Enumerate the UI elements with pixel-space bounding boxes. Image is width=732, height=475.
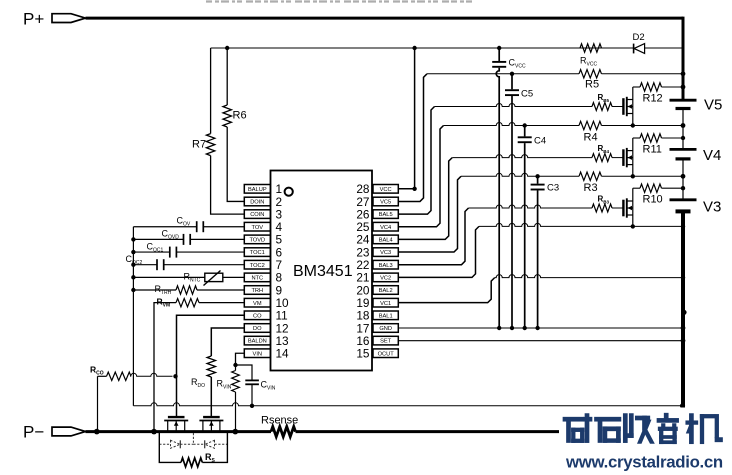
svg-text:BALUP: BALUP: [248, 187, 267, 193]
node junction C4 top: [523, 123, 527, 127]
label RB5: [598, 93, 610, 103]
resistor R12: [640, 83, 662, 91]
wire P+ top rail: [86, 17, 684, 20]
label Rco: [90, 365, 104, 377]
svg-text:www.crystalradio.cn: www.crystalradio.cn: [565, 453, 723, 472]
label R11: [643, 144, 662, 156]
battery V4: [670, 149, 697, 159]
node junction Rvin rail: [233, 429, 239, 435]
svg-text:BAL3: BAL3: [379, 263, 393, 269]
svg-text:27: 27: [356, 195, 369, 209]
wire TOV row: [133, 226, 244, 228]
pin 17 GND label box: [373, 324, 398, 333]
label Cvcc: [509, 58, 526, 70]
pin 24 number: [356, 233, 370, 247]
node junction Cvcc gnd: [497, 326, 501, 330]
capacitor Coc1: [170, 247, 177, 258]
wire R6 column top: [226, 48, 228, 105]
pin 14 VIN label box: [244, 349, 270, 358]
pin 23 VC3 label box: [373, 248, 398, 257]
svg-text:26: 26: [356, 207, 370, 221]
wire BAL4 pin up-over: [398, 158, 452, 240]
node junction R5 bus: [681, 71, 686, 76]
P+ connector terminal: [52, 14, 86, 23]
svg-text:VC2: VC2: [380, 275, 391, 281]
node junction VC2 Q3source: [631, 224, 635, 228]
node junction rowB bus: [680, 403, 685, 408]
svg-text:D2: D2: [633, 32, 645, 43]
pin 4 TOV label box: [244, 222, 270, 231]
pin 8 number: [276, 271, 283, 285]
label R5: [585, 79, 599, 91]
svg-text:VC1: VC1: [380, 301, 391, 307]
svg-text:DO: DO: [253, 326, 262, 332]
label R12: [643, 93, 663, 105]
wire Rco left leg: [97, 376, 99, 431]
wire R4 row left: [444, 123, 580, 126]
capacitor Covd: [184, 234, 191, 245]
pin 7 TOC2 label box: [244, 260, 270, 269]
wire bus V5 to V4: [682, 109, 684, 150]
resistor Rsense: [271, 427, 296, 437]
svg-text:TOV: TOV: [252, 225, 264, 231]
svg-text:18: 18: [356, 309, 370, 323]
pin 27 VC5 label box: [373, 197, 398, 206]
pin 8 NTC label box: [244, 273, 270, 282]
label Cvin: [261, 380, 276, 392]
battery V5: [670, 100, 697, 108]
svg-text:BAL2: BAL2: [379, 288, 393, 294]
pin 15 OCUT label box: [373, 349, 398, 358]
pin 28 number: [356, 182, 370, 196]
pin 27 number: [356, 195, 369, 209]
wire R12 to bus: [662, 86, 684, 88]
svg-text:VC3: VC3: [380, 250, 391, 256]
svg-text:P−: P−: [23, 423, 44, 442]
P- label: [23, 423, 44, 442]
svg-text:R10: R10: [643, 194, 663, 206]
node junction VC2 bus: [681, 224, 685, 228]
node junction Rco CO-column: [173, 374, 177, 378]
node junction bus TOVD: [131, 237, 135, 241]
pin 4 number: [276, 220, 283, 234]
label Coc1: [147, 242, 164, 254]
pin 16 number: [356, 334, 370, 348]
pin 9 number: [276, 283, 283, 297]
pin 20 number: [356, 283, 370, 297]
wire RB4 row: [452, 155, 592, 158]
pin 15 number: [356, 347, 370, 361]
pin 2 DOIN label box: [244, 197, 270, 206]
wire TOVD row: [133, 238, 244, 240]
wire VC1 row: [495, 275, 683, 278]
svg-text:14: 14: [276, 347, 290, 361]
svg-text:BALDN: BALDN: [248, 339, 267, 345]
node junction C3 gnd: [535, 326, 539, 330]
wire VC4 pin up-over: [398, 126, 443, 227]
watermark url: [565, 453, 723, 472]
node junction C3 top: [535, 174, 539, 178]
svg-text:20: 20: [356, 283, 370, 297]
node junction top row Cvcc: [497, 46, 501, 50]
wire RB5 row: [435, 104, 593, 107]
svg-text:17: 17: [356, 321, 369, 335]
svg-text:BM3451: BM3451: [293, 263, 353, 280]
node junction SET bus: [681, 338, 686, 343]
pin 12 number: [276, 321, 289, 335]
wire Rvin to rail: [235, 365, 237, 432]
label V3: [703, 199, 721, 216]
wire R6 column bottom: [227, 127, 244, 201]
wire TRH row: [133, 289, 244, 291]
resistor R5: [579, 70, 601, 78]
wire VC2 row: [479, 223, 683, 226]
label Cov: [177, 216, 191, 228]
transistor Q1 discharge MOSFET: [164, 417, 188, 432]
wire R11 left: [633, 137, 640, 139]
pin 5 TOVD label box: [244, 235, 270, 244]
svg-text:R3: R3: [584, 182, 598, 194]
label C3: [547, 183, 559, 194]
wire left bus vertical: [132, 227, 134, 406]
resistor RB5: [592, 103, 612, 111]
pin 23 number: [356, 245, 370, 259]
pin 25 VC4 label box: [373, 222, 398, 231]
wire R10 left: [633, 187, 640, 189]
P+ label: [23, 10, 44, 29]
pin 19 VC1 label box: [373, 298, 398, 307]
pin 1 index circle: [285, 188, 293, 196]
svg-text:VIN: VIN: [253, 351, 262, 357]
wire R5 to bus: [602, 73, 684, 75]
resistor R10: [640, 184, 662, 192]
wire sense row B: [133, 403, 683, 406]
pin 6 TOC1 label box: [244, 248, 270, 257]
capacitor C4: [518, 126, 532, 329]
wire D2 to bus: [645, 47, 683, 49]
wire bus V4 to V3: [682, 159, 684, 200]
wire RB3 to gate: [612, 207, 623, 209]
wire right bus thick top: [682, 17, 685, 101]
label R10: [643, 194, 663, 206]
pin 13 BALDN label box: [244, 336, 270, 345]
node junction rowB Cvin: [250, 404, 254, 408]
wire Q5 drain-source link: [632, 87, 634, 126]
wire R5 row left: [427, 73, 579, 75]
node junction bus mid: [681, 310, 686, 315]
wire VC5 pin up-over: [398, 74, 427, 202]
svg-text:R11: R11: [643, 144, 662, 156]
node junction bus TOC1: [131, 250, 135, 254]
wire P- rail left: [86, 430, 272, 433]
transistor Q2 charge MOSFET: [199, 417, 223, 432]
transistor Q5 balance MOSFET: [623, 97, 632, 116]
wire Cvin branch: [236, 365, 253, 380]
svg-text:BAL5: BAL5: [379, 212, 393, 218]
wire Rs loop: [159, 432, 227, 463]
pin 19 number: [356, 296, 369, 310]
svg-text:28: 28: [356, 182, 370, 196]
pin 26 number: [356, 207, 370, 221]
label Coc2: [126, 254, 143, 266]
node junction Rvm rail: [151, 429, 157, 435]
pin 22 number: [356, 258, 369, 272]
label Rntc: [184, 272, 201, 284]
wire dashed center stub: [192, 433, 194, 444]
wire BAL3 pin up-over: [398, 208, 468, 265]
node junction R4 Q5source: [631, 123, 635, 127]
svg-text:TOC1: TOC1: [250, 250, 265, 256]
label Rtrh: [155, 284, 172, 296]
label D2: [633, 32, 645, 43]
wire GND row: [398, 327, 683, 329]
capacitor Cvcc: [492, 48, 506, 328]
svg-text:VC5: VC5: [380, 200, 391, 206]
label Rvin: [217, 379, 232, 391]
node junction R12 bus: [681, 85, 686, 90]
wire TOC1 row: [133, 251, 244, 253]
label R7: [192, 139, 206, 151]
wire R7 column bottom: [211, 156, 245, 215]
node junction VIN split: [233, 363, 237, 367]
wire VCC pin to top row: [398, 48, 414, 189]
pin 21 VC2 label box: [373, 273, 398, 282]
node junction Rco rail: [94, 429, 100, 435]
svg-text:OCUT: OCUT: [378, 351, 395, 357]
pin 2 number: [276, 195, 283, 209]
label C5: [521, 89, 533, 100]
svg-text:C3: C3: [547, 183, 559, 194]
battery V3: [670, 200, 697, 212]
resistor Rvm: [176, 299, 199, 307]
label V5: [704, 97, 722, 114]
svg-text:R4: R4: [584, 132, 598, 144]
resistor R3: [579, 172, 601, 180]
svg-text:22: 22: [356, 258, 369, 272]
wire VC2 pin up-over: [398, 226, 479, 277]
node junction VC1 bus: [681, 275, 685, 279]
svg-text:BAL1: BAL1: [379, 313, 393, 319]
node junction C4 gnd: [523, 326, 527, 330]
wire Q3 drain-source link: [632, 188, 634, 226]
svg-text:COIN: COIN: [250, 212, 264, 218]
node junction bus TRH: [131, 288, 135, 292]
pin 10 VM label box: [244, 298, 270, 307]
node junction C5 gnd: [510, 326, 514, 330]
label Rvm: [157, 297, 171, 309]
label R4: [584, 132, 598, 144]
pin 11 number: [276, 309, 288, 323]
resistor R7: [206, 134, 214, 156]
pin 20 BAL2 label box: [373, 286, 398, 295]
node junction GND bus: [681, 326, 686, 331]
resistor R4: [579, 121, 601, 129]
svg-text:V5: V5: [704, 97, 722, 114]
wire VC3 pin up-over: [398, 176, 461, 252]
svg-text:R7: R7: [192, 139, 206, 151]
svg-text:SET: SET: [380, 339, 392, 345]
watermark logo text: [559, 408, 732, 475]
body diode D0 dashed: [193, 440, 227, 448]
wire Rvcc to D2: [602, 47, 634, 49]
wire R3 right: [602, 175, 684, 177]
svg-text:15: 15: [356, 347, 370, 361]
pin 25 number: [356, 220, 370, 234]
svg-text:TRH: TRH: [251, 288, 263, 294]
node junction R11 bus: [681, 136, 685, 140]
node junction bus TOC2: [131, 263, 135, 267]
svg-text:19: 19: [356, 296, 369, 310]
svg-text:GND: GND: [379, 326, 392, 332]
node junction R3 bus: [681, 174, 686, 179]
label Covd: [162, 229, 180, 241]
label Rvcc: [580, 56, 597, 68]
pin 1 BALUP label box: [244, 185, 270, 194]
wire Rco left stub: [98, 375, 107, 377]
svg-text:16: 16: [356, 334, 370, 348]
label R6: [233, 110, 247, 122]
wire R11 to bus: [662, 137, 684, 139]
label Rs: [205, 452, 216, 464]
resistor Rtrh: [176, 286, 197, 294]
resistor Rdo: [207, 356, 215, 377]
wire Q4 drain-source link: [632, 138, 634, 176]
pin 9 TRH label box: [244, 286, 270, 295]
wire SET row: [398, 340, 683, 342]
wire Rdo to gate: [210, 377, 212, 416]
svg-text:NTC: NTC: [251, 275, 263, 281]
wire RB3 row: [469, 205, 593, 208]
svg-text:TOVD: TOVD: [249, 238, 265, 244]
pin 5 number: [276, 233, 283, 247]
svg-text:C4: C4: [534, 136, 546, 147]
transistor Q3 balance MOSFET: [623, 198, 632, 217]
svg-text:BAL4: BAL4: [379, 238, 393, 244]
wire Rco row hops: [131, 373, 173, 376]
node junction bus NTC: [131, 275, 135, 279]
svg-text:25: 25: [356, 220, 370, 234]
P- connector terminal: [52, 427, 86, 436]
wire DO pin down: [211, 328, 244, 356]
svg-text:DOIN: DOIN: [250, 200, 264, 206]
svg-text:23: 23: [356, 245, 370, 259]
pin 11 CO label box: [244, 311, 270, 320]
wire R3 row left: [461, 173, 579, 176]
wire R10 to bus: [662, 187, 684, 189]
op-amp U1 BM3451 IC body: [271, 171, 373, 371]
node junction C5 top: [510, 72, 514, 76]
wire P- rail right: [296, 430, 564, 433]
svg-text:VM: VM: [253, 301, 262, 307]
pin 12 DO label box: [244, 324, 270, 333]
capacitor Cov: [197, 221, 204, 232]
svg-text:V3: V3: [703, 199, 721, 216]
pin 6 number: [276, 245, 283, 259]
wire R12 left: [633, 86, 640, 88]
wire VM row: [154, 303, 244, 432]
node junction R4 bus: [681, 123, 686, 128]
faint cropped text remnants top edge: [206, 0, 472, 2]
svg-text:R5: R5: [585, 79, 599, 91]
wire RB5 to gate: [612, 106, 623, 108]
pin 18 BAL1 label box: [373, 311, 398, 320]
wire top row: [211, 47, 683, 49]
pin 7 number: [276, 258, 283, 272]
resistor RB3: [592, 204, 612, 212]
capacitor Coc2: [157, 259, 164, 270]
node junction R3 Q4source: [631, 174, 635, 178]
label RB3: [598, 195, 610, 205]
pin 24 BAL4 label box: [373, 235, 398, 244]
wire VC1 pin up-over: [398, 278, 494, 303]
resistor R6: [223, 105, 231, 127]
pin 21 number: [356, 271, 369, 285]
node junction VCC: [412, 187, 416, 191]
wire TOC2 row: [133, 264, 244, 266]
pin 3 number: [276, 207, 283, 221]
svg-text:C5: C5: [521, 89, 533, 100]
pin 14 number: [276, 347, 290, 361]
svg-text:R12: R12: [643, 93, 663, 105]
label RB4: [598, 144, 610, 154]
pin 3 COIN label box: [244, 210, 270, 219]
pin 17 number: [356, 321, 369, 335]
label Rsense: [261, 415, 298, 427]
resistor Rvin: [232, 371, 240, 393]
label BM3451: [293, 263, 353, 280]
svg-text:TOC2: TOC2: [250, 263, 265, 269]
svg-text:Rsense: Rsense: [261, 415, 298, 427]
node junction top row VCC: [412, 46, 416, 50]
pin 28 VCC label box: [373, 185, 398, 194]
pin 16 SET label box: [373, 336, 398, 345]
capacitor C3: [531, 176, 545, 328]
wire R7 column top: [210, 48, 212, 134]
label C4: [534, 136, 546, 147]
pin 1 number: [276, 182, 283, 196]
thermistor Rntc: [204, 271, 223, 286]
node junction R6 top: [225, 46, 229, 50]
wire NTC row: [133, 276, 244, 278]
svg-text:P+: P+: [23, 10, 44, 29]
svg-text:VCC: VCC: [380, 187, 392, 193]
node junction R10 bus: [681, 186, 685, 190]
pin 13 number: [276, 334, 290, 348]
resistor Rco: [107, 372, 132, 380]
wire R4 right: [602, 125, 684, 127]
body diode D1 dashed: [159, 440, 193, 448]
transistor Q4 balance MOSFET: [623, 148, 632, 167]
capacitor C5: [505, 74, 519, 328]
wire CO pin down: [177, 315, 245, 416]
wire bus V3 down thick: [681, 211, 685, 407]
resistor RB4: [592, 154, 612, 162]
pin 26 BAL5 label box: [373, 210, 398, 219]
resistor Rvcc: [580, 44, 602, 52]
wire BAL5 pin up-over: [398, 107, 434, 215]
wire RB4 to gate: [612, 157, 623, 159]
svg-text:21: 21: [356, 271, 369, 285]
resistor Rs: [181, 458, 202, 467]
capacitor Cvin: [245, 380, 259, 405]
diode D2: [634, 44, 645, 54]
wire VIN pin down: [236, 353, 245, 365]
pin 22 BAL3 label box: [373, 260, 398, 269]
label R3: [584, 182, 598, 194]
svg-text:24: 24: [356, 233, 370, 247]
resistor R11: [640, 134, 662, 142]
label V4: [703, 147, 721, 164]
